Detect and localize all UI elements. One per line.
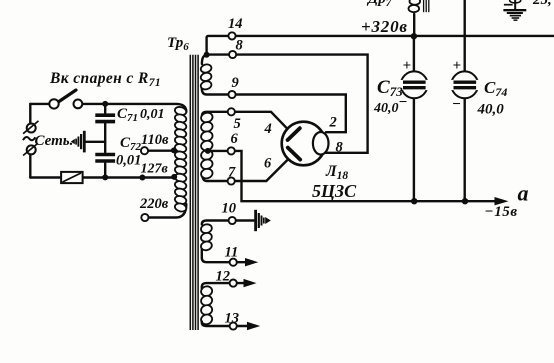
svg-text:6: 6 — [264, 156, 272, 172]
svg-text:6: 6 — [231, 131, 239, 147]
svg-text:40,0: 40,0 — [477, 102, 505, 118]
svg-text:12: 12 — [216, 269, 231, 285]
svg-text:8: 8 — [336, 140, 344, 156]
svg-text:2: 2 — [329, 115, 337, 131]
svg-text:а: а — [518, 181, 529, 206]
svg-text:+: + — [403, 58, 412, 74]
svg-text:+: + — [453, 58, 462, 74]
svg-text:Сеть.: Сеть. — [35, 133, 74, 149]
svg-text:13: 13 — [225, 311, 240, 327]
svg-text:8: 8 — [236, 38, 244, 54]
svg-text:С710,01: С710,01 — [117, 106, 165, 124]
svg-text:110в: 110в — [141, 132, 169, 148]
svg-text:Л18: Л18 — [325, 163, 348, 182]
svg-text:0,01: 0,01 — [116, 153, 141, 169]
svg-text:Тр6: Тр6 — [167, 35, 189, 53]
svg-text:220в: 220в — [139, 196, 169, 212]
svg-text:−15в: −15в — [485, 204, 518, 220]
svg-text:5ЦЗС: 5ЦЗС — [312, 181, 357, 201]
svg-text:11: 11 — [225, 245, 239, 261]
svg-text:25,: 25, — [532, 0, 552, 8]
svg-text:−: − — [452, 97, 461, 113]
svg-text:Др7: Др7 — [366, 0, 392, 9]
svg-text:9: 9 — [232, 75, 239, 91]
svg-text:+320в: +320в — [361, 17, 408, 36]
svg-text:С72: С72 — [120, 135, 142, 153]
svg-text:127в: 127в — [141, 162, 169, 177]
svg-text:10: 10 — [222, 201, 237, 217]
svg-text:14: 14 — [228, 16, 243, 32]
svg-text:Вк спарен с R71: Вк спарен с R71 — [49, 70, 161, 89]
svg-text:С74: С74 — [484, 78, 507, 99]
svg-text:7: 7 — [228, 165, 236, 181]
svg-text:4: 4 — [264, 121, 272, 137]
svg-text:5: 5 — [234, 116, 241, 132]
